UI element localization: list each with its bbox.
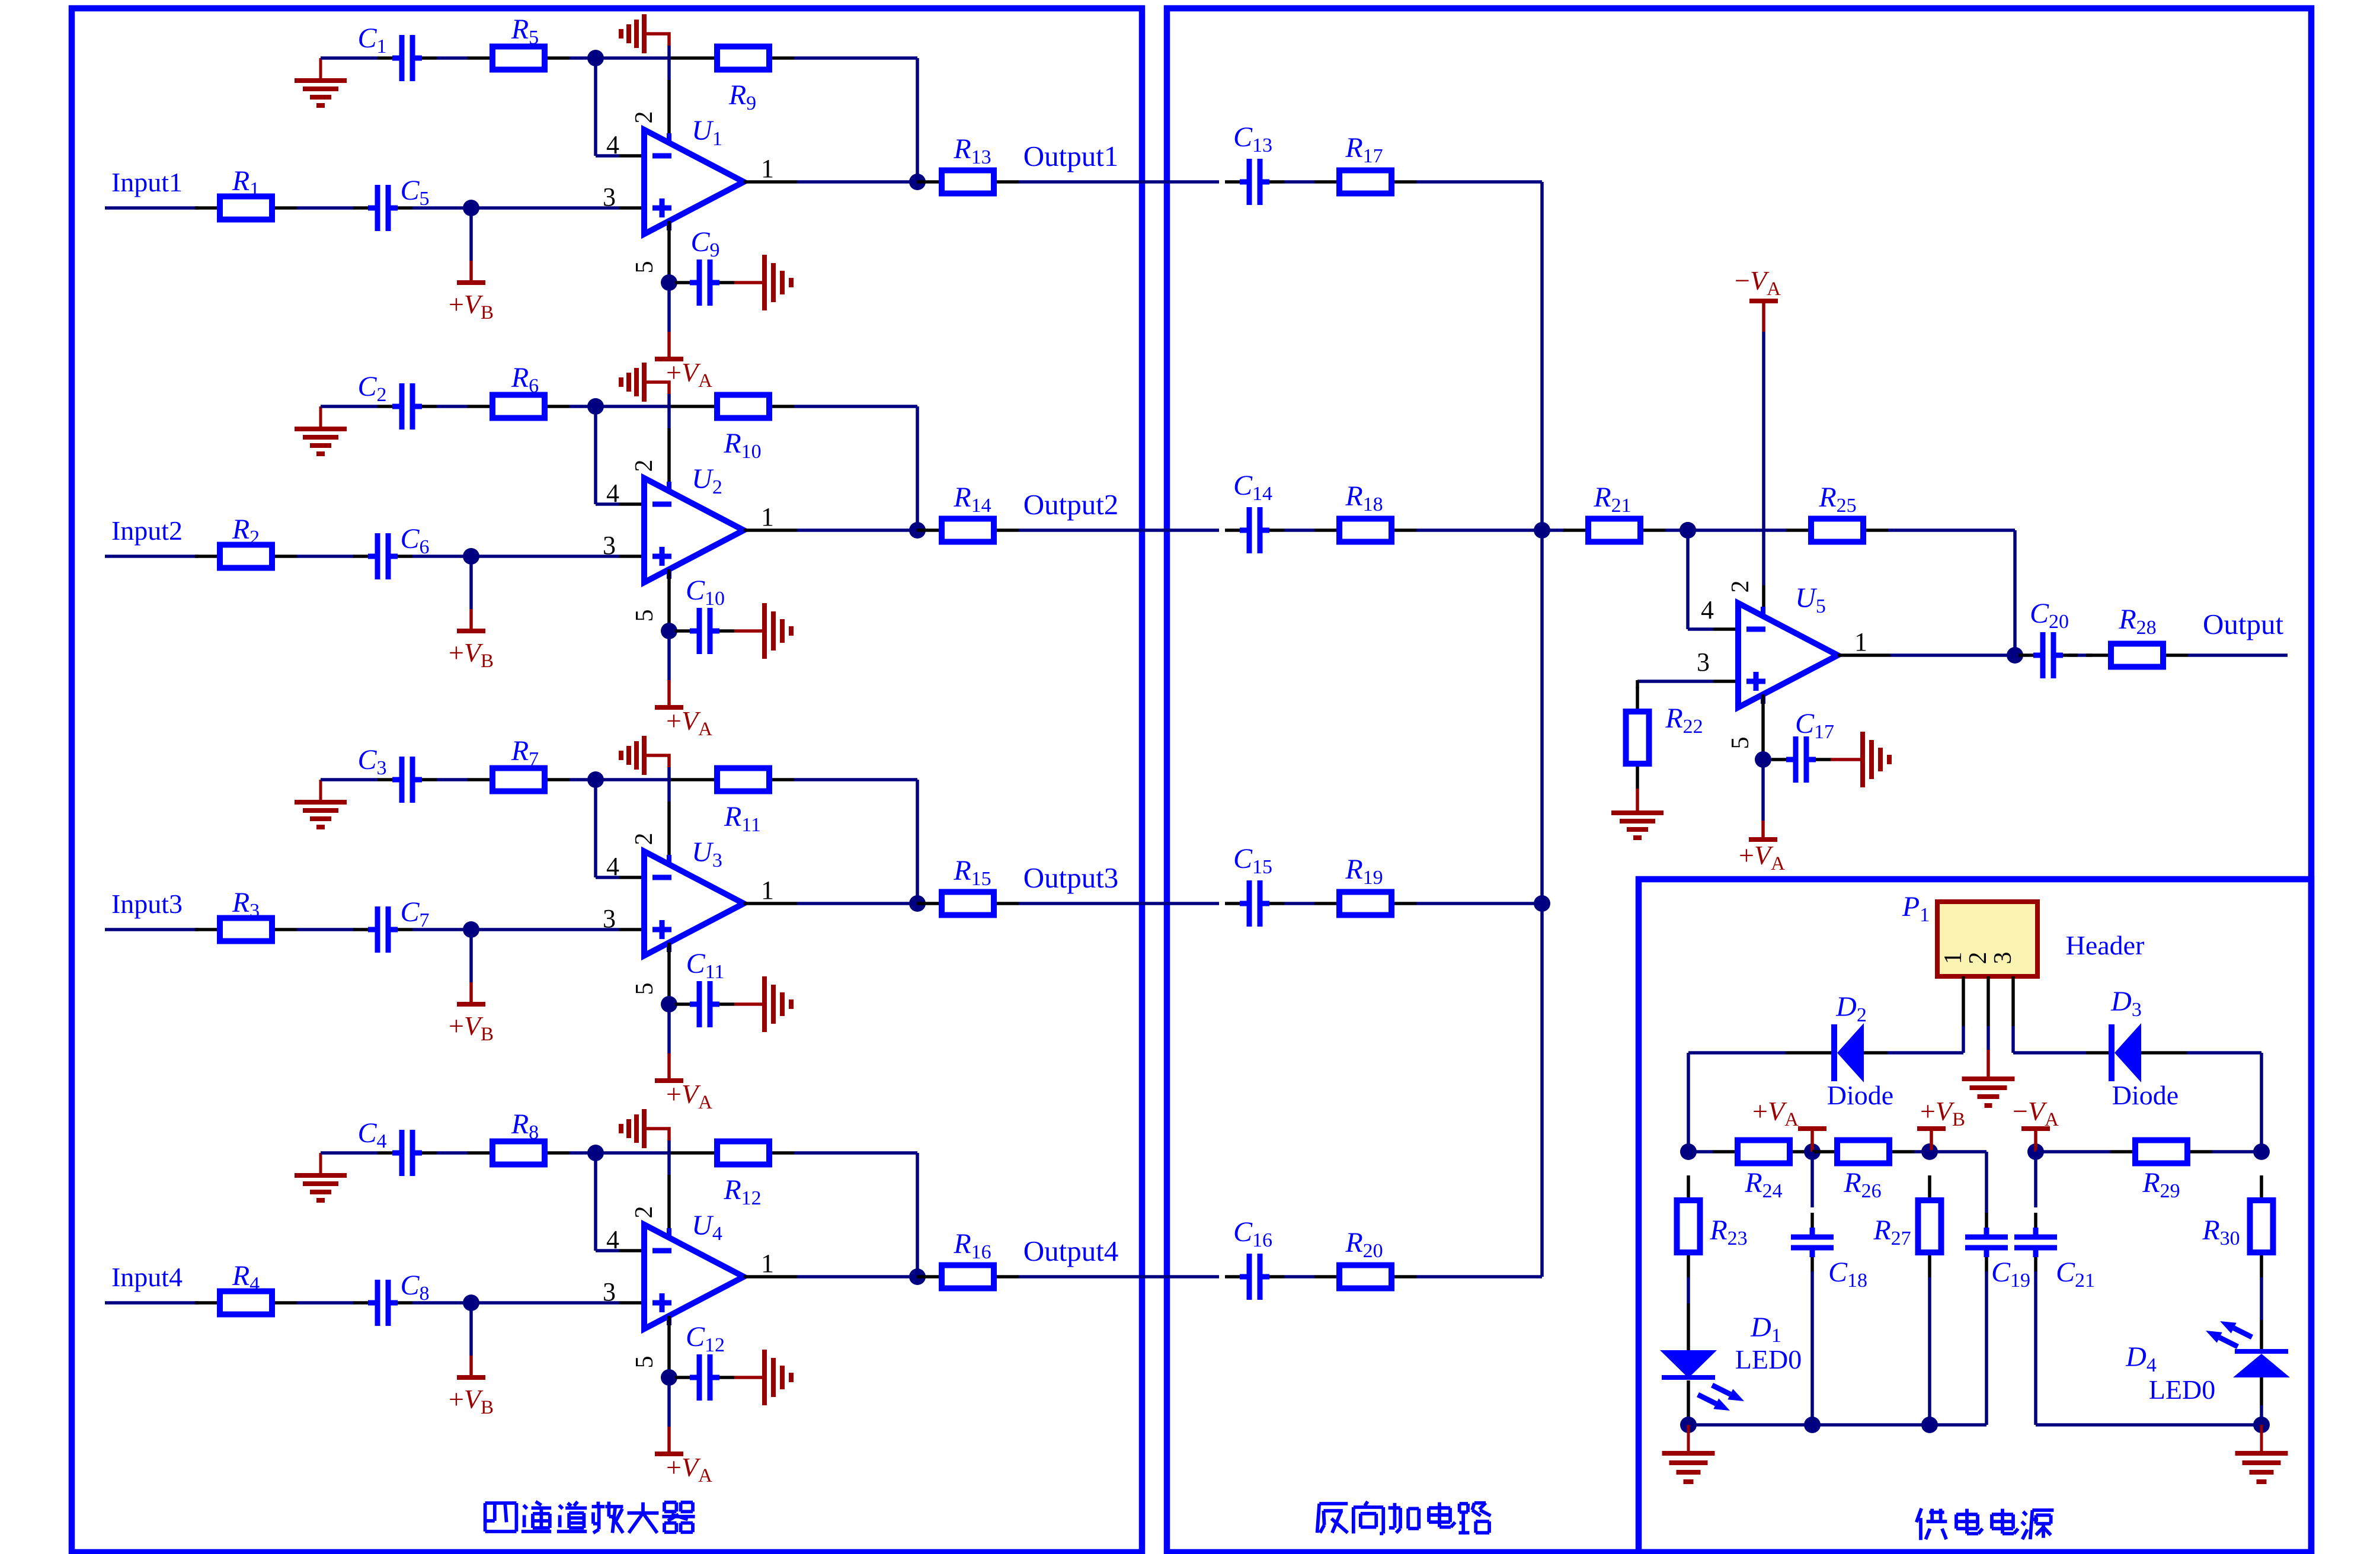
svg-text:5: 5 xyxy=(1727,737,1754,749)
svg-text:1: 1 xyxy=(761,876,774,905)
svg-text:Output3: Output3 xyxy=(1023,861,1119,894)
svg-text:1: 1 xyxy=(1854,627,1867,656)
svg-text:4: 4 xyxy=(606,479,619,508)
svg-text:2: 2 xyxy=(631,111,658,124)
svg-text:Output1: Output1 xyxy=(1023,140,1119,172)
svg-text:4: 4 xyxy=(606,852,619,881)
svg-text:3: 3 xyxy=(603,1277,616,1306)
svg-text:5: 5 xyxy=(631,983,658,995)
svg-text:3: 3 xyxy=(1697,648,1710,677)
svg-text:1: 1 xyxy=(761,1249,774,1278)
svg-text:Header: Header xyxy=(2066,930,2145,960)
svg-text:LED0: LED0 xyxy=(1735,1344,1802,1374)
svg-text:4: 4 xyxy=(606,130,619,159)
svg-text:LED0: LED0 xyxy=(2149,1374,2215,1405)
svg-text:2: 2 xyxy=(1727,581,1754,593)
svg-text:Input1: Input1 xyxy=(111,167,183,197)
svg-text:3: 3 xyxy=(603,904,616,933)
svg-text:Output2: Output2 xyxy=(1023,488,1119,521)
svg-text:2: 2 xyxy=(631,1206,658,1219)
svg-text:Diode: Diode xyxy=(1827,1080,1893,1110)
svg-text:2: 2 xyxy=(631,460,658,472)
svg-text:3: 3 xyxy=(1989,952,2017,965)
svg-text:Input4: Input4 xyxy=(111,1262,183,1292)
svg-text:Input2: Input2 xyxy=(111,515,183,546)
svg-text:2: 2 xyxy=(631,833,658,845)
svg-text:4: 4 xyxy=(606,1225,619,1254)
svg-text:5: 5 xyxy=(631,1356,658,1369)
svg-text:3: 3 xyxy=(603,531,616,560)
svg-text:Output: Output xyxy=(2203,608,2284,640)
svg-text:1: 1 xyxy=(761,502,774,531)
svg-text:5: 5 xyxy=(631,261,658,274)
svg-text:4: 4 xyxy=(1701,595,1714,624)
svg-text:Input3: Input3 xyxy=(111,889,183,919)
svg-text:5: 5 xyxy=(631,610,658,622)
svg-text:1: 1 xyxy=(1940,952,1967,965)
svg-text:Output4: Output4 xyxy=(1023,1235,1119,1267)
svg-text:3: 3 xyxy=(603,182,616,212)
svg-text:2: 2 xyxy=(1965,952,1992,965)
svg-text:1: 1 xyxy=(761,154,774,183)
svg-text:Diode: Diode xyxy=(2112,1080,2179,1110)
